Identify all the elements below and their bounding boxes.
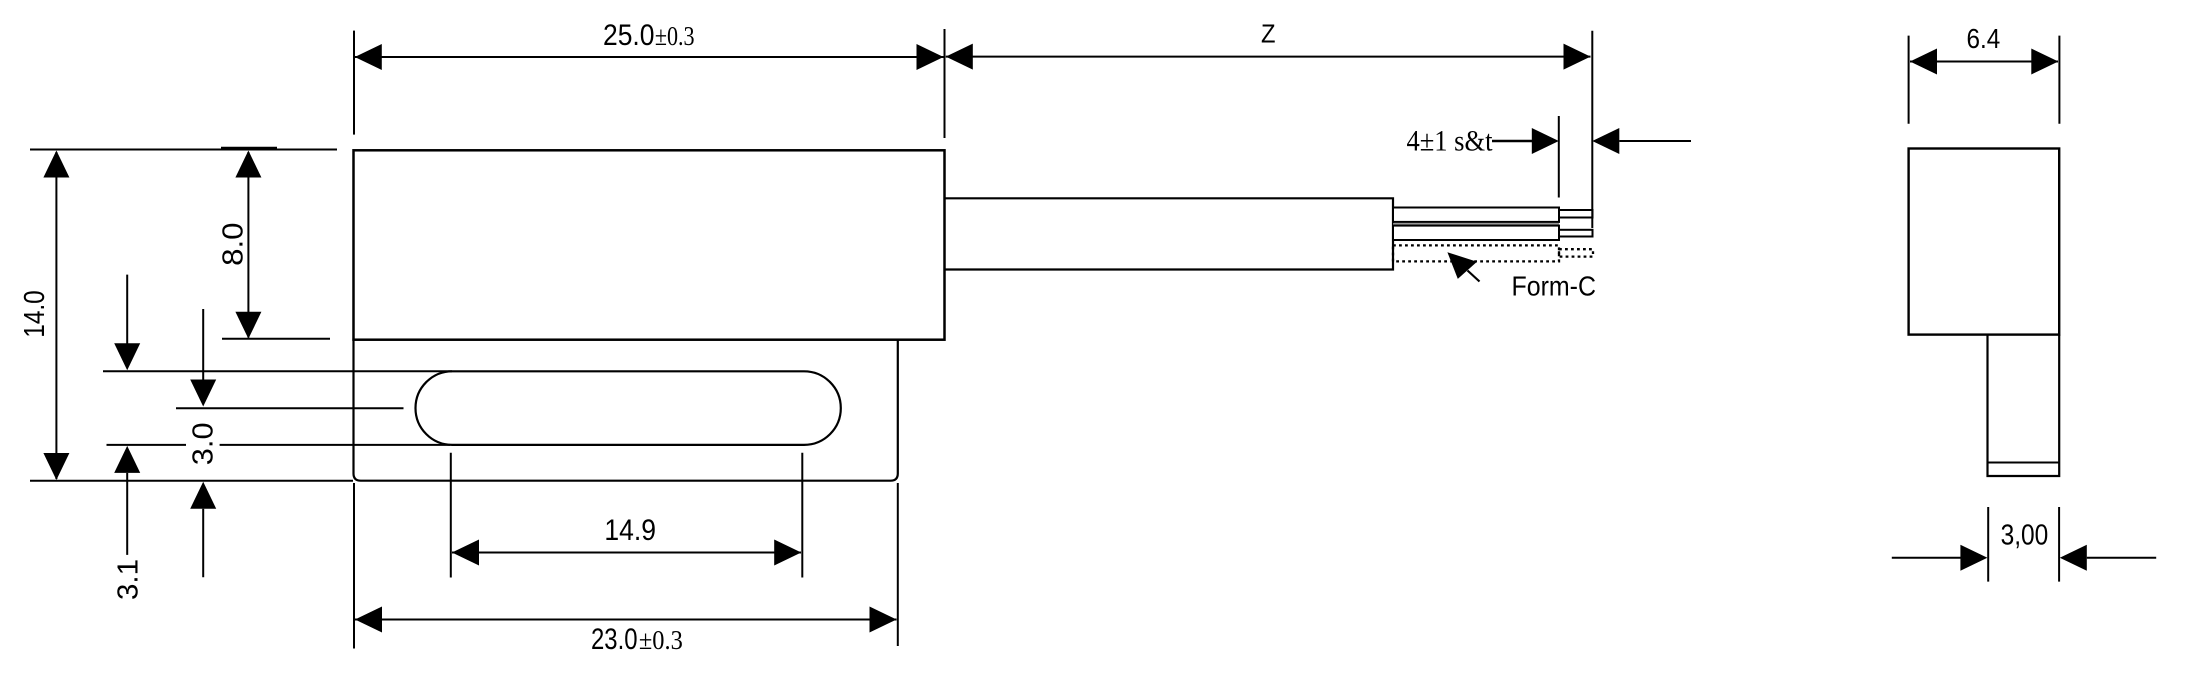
Z right arrow — [1564, 44, 1591, 70]
wire 3 dashed insulation — [1393, 245, 1559, 261]
flange bottom extension line — [30, 480, 353, 482]
3,00 left arrow — [1892, 557, 1961, 559]
left view: slot (stadium cutout) — [416, 371, 841, 445]
end view: stem outline — [1988, 335, 2060, 476]
wire separator (gray) — [1393, 223, 1559, 225]
wire 1 insulation — [1393, 208, 1559, 222]
slot centre leader line — [176, 407, 404, 409]
svg-text:8.0: 8.0 — [218, 223, 250, 266]
svg-text:25.0: 25.0 — [603, 19, 655, 52]
extension line left of 25.0 — [353, 31, 355, 135]
svg-text:Z: Z — [1261, 18, 1276, 48]
svg-text:±0.3: ±0.3 — [639, 624, 683, 655]
extension line right of body (25.0 / Z shared) — [944, 29, 946, 138]
slot top extension line — [103, 370, 452, 372]
wire 3 dashed bare conductor — [1559, 249, 1593, 256]
svg-text:3,00: 3,00 — [2001, 519, 2049, 551]
extension line at conductor end — [1591, 31, 1593, 228]
25.0 left arrow — [355, 44, 382, 70]
svg-text:Form-C: Form-C — [1512, 271, 1597, 302]
14.9 extension lines — [450, 453, 452, 578]
3.1 dimension upper arrow — [126, 275, 128, 344]
extension line at wire insulation end — [1558, 116, 1560, 198]
23.0 extension lines — [353, 483, 355, 649]
left view: mounting flange outline — [354, 339, 898, 481]
Z dimension line — [946, 56, 1591, 58]
svg-text:4±1 s&t: 4±1 s&t — [1407, 126, 1494, 158]
svg-text:14.0: 14.0 — [19, 290, 51, 338]
4±1 left leader line and arrow — [1492, 140, 1533, 143]
wire 1 bare conductor — [1559, 210, 1593, 218]
4±1 right arrow — [1592, 128, 1619, 154]
6.4 extension lines — [1908, 36, 1910, 124]
3,00 extension lines — [1987, 507, 1989, 582]
end view: body outline — [1909, 149, 2060, 335]
left view: sensor body outline — [354, 150, 945, 339]
6.4 dimension line — [1910, 61, 2058, 63]
14.9 dimension line — [452, 552, 801, 554]
8.0 bottom extension line — [222, 338, 330, 340]
svg-text:3.1: 3.1 — [113, 559, 145, 600]
wire 2 bare conductor — [1559, 230, 1593, 237]
svg-text:±0.3: ±0.3 — [655, 20, 695, 51]
25.0 right arrow — [917, 44, 944, 70]
end view: stem inner line — [1988, 462, 2060, 464]
slot bottom extension line — [107, 444, 187, 446]
Form-C leader arrow — [1447, 252, 1477, 279]
cable — [945, 198, 1394, 269]
wire 2 insulation — [1393, 226, 1559, 240]
14.0 dimension line — [55, 152, 57, 479]
svg-text:14.9: 14.9 — [604, 514, 656, 547]
3,00 right arrow — [2060, 545, 2087, 571]
svg-text:23.0: 23.0 — [591, 623, 638, 656]
3.0 dimension lower arrow — [190, 482, 216, 509]
svg-text:3.0: 3.0 — [187, 422, 219, 465]
3.1 dimension lower arrow — [114, 446, 140, 473]
svg-text:6.4: 6.4 — [1967, 23, 2001, 54]
Z left arrow — [946, 44, 973, 70]
8.0 dimension line — [247, 152, 249, 338]
25.0 dimension line — [355, 56, 944, 58]
8.0 top extension tick — [221, 147, 277, 150]
23.0 dimension line — [355, 619, 897, 621]
top-left extension line — [30, 149, 337, 151]
3.0 dimension upper arrow — [202, 309, 204, 380]
